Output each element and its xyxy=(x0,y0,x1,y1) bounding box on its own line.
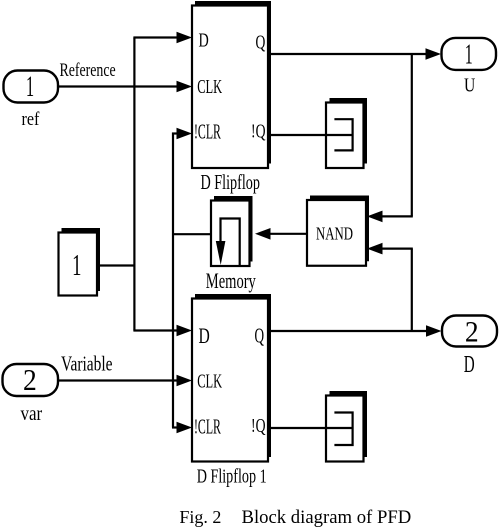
memory block M1 shadow xyxy=(214,196,253,262)
svg-text:!CLR: !CLR xyxy=(194,120,221,144)
svg-text:1: 1 xyxy=(26,70,34,103)
wire Variable to U2 CLK xyxy=(58,379,178,381)
arrow into NAND upper input xyxy=(367,211,383,223)
D flip-flop U1 (top) body xyxy=(192,6,268,169)
D flip-flop U2 (bottom) shadow xyxy=(195,294,271,457)
wire memory output to CLR bus xyxy=(172,233,211,235)
constant block K1 shadow xyxy=(62,228,101,291)
terminator T2 body xyxy=(326,396,364,462)
wire constant output xyxy=(97,264,135,266)
svg-text:2: 2 xyxy=(465,316,479,349)
svg-text:ref: ref xyxy=(22,108,40,130)
svg-text:CLK: CLK xyxy=(197,369,223,392)
wire U1 Q to outport U xyxy=(269,53,428,55)
wire U2 Q to outport D xyxy=(269,330,428,332)
svg-text:Reference: Reference xyxy=(60,59,116,81)
constant block K1 body xyxy=(59,233,98,296)
inport oval 2 "var" xyxy=(3,364,59,396)
NAND gate block shadow xyxy=(310,196,369,262)
arrow into U1 D xyxy=(177,32,193,44)
svg-text:D: D xyxy=(199,29,209,51)
inport oval 1 "ref" xyxy=(4,71,59,103)
wire to U2 D xyxy=(133,329,178,331)
svg-text:Variable: Variable xyxy=(61,352,113,376)
terminator T2 shadow xyxy=(330,391,368,457)
wire U1 !Q to terminator T1 xyxy=(269,134,353,136)
svg-text:D Flipflop: D Flipflop xyxy=(201,170,260,194)
svg-text:CLK: CLK xyxy=(197,75,223,98)
arrow into outport U xyxy=(426,48,442,60)
wire U2 !Q to terminator T2 xyxy=(269,427,353,429)
svg-text:Q: Q xyxy=(256,31,266,53)
svg-text:2: 2 xyxy=(23,364,37,398)
terminator T1 icon bracket xyxy=(334,119,352,150)
svg-text:Fig. 2: Fig. 2 xyxy=(179,507,221,527)
NAND gate block body xyxy=(307,200,366,266)
outport oval 1 "U" xyxy=(442,38,497,70)
terminator T1 body xyxy=(326,103,364,169)
arrow into U2 CLK xyxy=(177,375,193,387)
D flip-flop U2 (bottom) body xyxy=(192,299,268,462)
wire to U1 !CLR xyxy=(172,132,178,134)
svg-text:!Q: !Q xyxy=(251,119,266,142)
svg-text:1: 1 xyxy=(72,247,81,282)
svg-text:!Q: !Q xyxy=(251,413,266,436)
svg-text:D: D xyxy=(464,352,475,378)
memory icon door xyxy=(221,219,240,266)
terminator T1 shadow xyxy=(330,98,368,164)
svg-text:Memory: Memory xyxy=(206,269,257,292)
arrow into U1 CLK xyxy=(177,81,193,93)
D flip-flop U1 (top) shadow xyxy=(195,1,271,164)
svg-text:D: D xyxy=(199,325,210,349)
memory icon arrow xyxy=(216,241,226,265)
arrow into NAND lower input xyxy=(367,243,383,255)
svg-text:!CLR: !CLR xyxy=(194,415,221,439)
svg-text:U: U xyxy=(464,74,475,96)
arrow into U1 !CLR xyxy=(177,128,193,140)
outport oval 2 "D" xyxy=(442,316,497,347)
wire CLR vertical bus xyxy=(172,133,174,428)
svg-text:var: var xyxy=(21,403,43,426)
arrow into outport D xyxy=(426,325,442,337)
wire constant vertical bus xyxy=(133,38,135,331)
terminator T2 icon bracket xyxy=(334,413,352,446)
arrow into U2 !CLR xyxy=(177,422,193,434)
svg-text:D Flipflop 1: D Flipflop 1 xyxy=(197,464,267,487)
wire to U2 !CLR xyxy=(172,426,178,428)
svg-text:Block diagram of PFD: Block diagram of PFD xyxy=(242,507,412,528)
svg-text:NAND: NAND xyxy=(316,224,353,244)
wire NAND lower input horizontal xyxy=(382,248,413,250)
svg-text:Q: Q xyxy=(255,323,265,347)
arrow into memory input xyxy=(255,228,271,240)
svg-text:1: 1 xyxy=(465,39,473,71)
wire Reference to U1 CLK xyxy=(59,85,179,87)
wire NAND output to memory xyxy=(269,233,307,235)
wire NAND upper input horizontal xyxy=(382,215,413,217)
wire node Q2 to NAND lower vertical xyxy=(411,249,413,331)
arrow into U2 D xyxy=(177,325,193,337)
wire to U1 D xyxy=(133,36,178,38)
memory block M1 body xyxy=(211,201,250,267)
wire node Q1 to NAND upper vertical xyxy=(411,53,413,216)
